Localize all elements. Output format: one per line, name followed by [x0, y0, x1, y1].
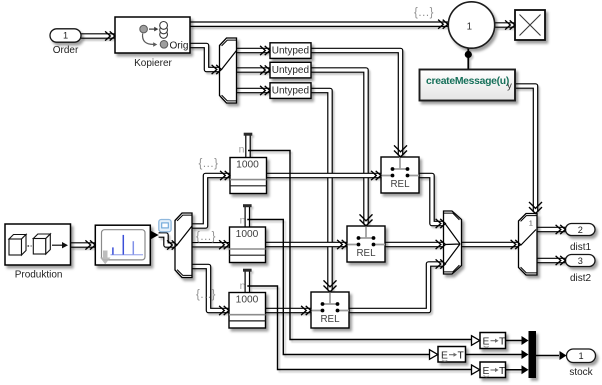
block EtoT1 — [480, 333, 506, 349]
block entity server scope — [95, 225, 150, 265]
svg-text:{...}: {...} — [196, 231, 216, 243]
X terminator cross — [520, 15, 541, 36]
antenna queue1 n port — [244, 134, 253, 157]
queue3 slots — [229, 314, 266, 316]
svg-text:Order: Order — [53, 45, 79, 56]
chevrons into dist1 — [556, 225, 566, 234]
svg-text:Kopierer: Kopierer — [134, 58, 172, 69]
terminator X block — [515, 10, 545, 40]
demux1 inner bevel accents — [222, 40, 237, 101]
mux2 inner bevel accents — [177, 215, 192, 275]
signal queue3 n to EtoT3 — [247, 286, 471, 370]
block REL1 — [381, 157, 419, 193]
wire U2 out down to REL2 top — [311, 70, 367, 225]
wire Produktion to server — [71, 242, 96, 248]
block icons and inner details — [9, 15, 541, 321]
svg-text:{...}: {...} — [414, 7, 434, 19]
chevrons into sum circle — [438, 20, 448, 29]
svg-text:createMessage(u): createMessage(u) — [426, 76, 509, 87]
input switch1 — [444, 211, 462, 274]
open triangle into EtoT2 — [430, 350, 438, 360]
demux1 diagonal — [222, 51, 237, 70]
queue1 block 1000 — [230, 158, 267, 194]
antenna queue3 n port — [243, 270, 252, 292]
svg-text:1: 1 — [529, 219, 533, 228]
REL2 icon — [347, 226, 385, 246]
svg-text:2: 2 — [578, 225, 583, 235]
svg-text:1: 1 — [467, 22, 472, 33]
wire mux2 out2 to queue2 — [192, 242, 229, 248]
chevrons into switch1 in2 — [436, 240, 446, 249]
outport dist2 — [566, 255, 596, 267]
block REL2 — [347, 226, 385, 262]
Kopierer icon — [140, 22, 168, 49]
signal EtoT1 to mux bar — [506, 340, 523, 342]
queue2 block 1000 — [230, 227, 266, 263]
wire REL3 to switch1 in3 — [349, 264, 444, 311]
chevrons into queue2 — [219, 240, 229, 249]
svg-text:REL: REL — [320, 314, 340, 325]
switch1 diagonals — [445, 224, 460, 265]
queue2 slots — [229, 248, 266, 250]
signal circle to createMessage — [467, 48, 469, 69]
switch3 inner bevel accents — [521, 216, 537, 273]
svg-text:dist2: dist2 — [570, 273, 592, 284]
server output message port — [151, 231, 159, 240]
svg-text:T: T — [499, 366, 506, 377]
chevrons into REL3 — [301, 306, 311, 315]
wire Order to Kopierer — [81, 33, 115, 39]
svg-text:n: n — [240, 215, 246, 227]
chevrons into mux2 — [167, 240, 177, 249]
wire demux1 out3 to Untyped3 — [237, 88, 271, 94]
REL3 icon — [311, 292, 349, 312]
chevrons into X block — [505, 20, 515, 29]
text EtoT3 — [483, 366, 507, 377]
svg-text:Untyped: Untyped — [272, 46, 309, 57]
signal queue2 n to EtoT2 — [247, 220, 429, 355]
signal EtoT3 to mux bar — [506, 369, 523, 371]
chevrons into REL2 — [337, 240, 347, 249]
server icon — [100, 230, 145, 265]
svg-text:stock: stock — [569, 367, 593, 378]
wire Kopierer out1 to sum circle — [190, 21, 448, 27]
block Untyped1 — [270, 43, 311, 59]
wire demux1 out1 to Untyped1 — [237, 48, 271, 54]
svg-text:1000: 1000 — [236, 229, 259, 240]
switch1 inner bevel accents — [444, 213, 460, 272]
chevrons into Untyped3 — [260, 86, 270, 95]
mux bar block — [529, 331, 537, 378]
signal queue1 n to EtoT1 — [248, 151, 472, 340]
Produktion icon dots and arrow — [28, 245, 32, 247]
svg-text:Untyped: Untyped — [272, 65, 309, 76]
svg-text:Orig: Orig — [170, 40, 189, 51]
text EtoT2 — [441, 351, 465, 362]
block Untyped2 — [270, 62, 311, 78]
svg-text:1: 1 — [63, 30, 68, 40]
solid arrow bar to stock — [560, 351, 567, 360]
chevrons into Kopierer — [105, 31, 115, 40]
svg-text:{...}: {...} — [196, 289, 216, 301]
signal EtoT2 to mux bar — [466, 354, 523, 356]
queue3 block 1000 — [229, 293, 266, 329]
svg-text:3: 3 — [578, 256, 583, 266]
wire switch3 out2 to dist2 — [537, 258, 566, 264]
block Kopierer — [115, 17, 190, 53]
block Produktion entity generator — [5, 224, 71, 265]
svg-text:1000: 1000 — [236, 160, 259, 171]
svg-text:REL: REL — [356, 248, 376, 259]
REL1 icon — [381, 157, 419, 177]
down chevrons into REL1 top — [394, 145, 407, 157]
queue1 slots — [230, 179, 267, 181]
wire switch3 out1 to dist1 — [537, 227, 566, 233]
down chevrons into switch3 top — [529, 202, 542, 214]
down chevrons into REL3 top — [324, 280, 337, 292]
chevrons into queue1 — [220, 171, 230, 180]
solid arrow EtoT2 to bar — [522, 350, 529, 359]
signal mux bar to stock port — [536, 355, 559, 357]
chevrons into switch3 — [511, 240, 521, 249]
arrowheads layer — [85, 20, 565, 316]
wire createMessage y to switch3 top — [515, 86, 536, 212]
wire queue2 to REL2 — [266, 242, 348, 248]
wire mux2 out3 to queue3 — [192, 267, 229, 311]
outport dist1 — [566, 224, 596, 236]
svg-text:dist1: dist1 — [570, 242, 592, 253]
wire U1 out down to REL1 top — [311, 51, 401, 156]
svg-text:{...}: {...} — [198, 158, 218, 170]
open triangle into EtoT3 — [472, 365, 480, 375]
wire U3 out down to REL3 top — [311, 91, 331, 291]
svg-text:n: n — [240, 280, 246, 292]
outport stock — [567, 349, 596, 363]
text EtoT1 — [483, 337, 507, 348]
output switch mux2 — [175, 213, 192, 278]
svg-text:Untyped: Untyped — [272, 86, 309, 97]
wire queue1 to REL1 — [267, 173, 382, 179]
svg-text:T: T — [499, 337, 506, 348]
chevrons into Untyped2 — [260, 65, 270, 74]
wire Kopierer out2 to demux1 — [190, 46, 220, 70]
svg-text:REL: REL — [390, 179, 410, 190]
block createMessage — [420, 70, 516, 101]
block REL3 — [311, 292, 349, 328]
down chevrons into REL2 top — [360, 214, 373, 226]
Produktion icon cubes — [9, 234, 50, 255]
chevrons into switch1 in3 — [436, 259, 446, 268]
svg-text:y: y — [507, 81, 512, 92]
svg-text:1: 1 — [578, 351, 583, 361]
wire switch1 to switch3 — [462, 242, 519, 248]
chevrons into queue3 — [219, 306, 229, 315]
chevrons into dist2 — [556, 256, 566, 265]
svg-text:n: n — [239, 144, 245, 156]
block Untyped3 — [270, 83, 311, 99]
svg-text:Produktion: Produktion — [15, 269, 63, 280]
junction dot — [465, 51, 472, 58]
wires layer — [71, 24, 566, 370]
block EtoT3 — [480, 362, 506, 378]
output switch demux1 — [220, 38, 237, 103]
wire queue3 to REL3 — [266, 308, 312, 314]
solid arrow EtoT1 to bar — [522, 336, 529, 345]
chevrons into Untyped1 — [260, 46, 270, 55]
sum circle block — [448, 2, 494, 48]
mux2 diagonal — [177, 226, 192, 245]
wire REL2 to switch1 in2 — [385, 242, 444, 248]
antenna queue2 n port — [243, 206, 252, 227]
svg-text:1000: 1000 — [236, 295, 259, 306]
wire server to mux2 — [159, 235, 175, 245]
chevrons into demux1 — [212, 65, 222, 74]
chevrons into server — [85, 240, 95, 249]
open triangle into EtoT1 — [472, 336, 480, 346]
inport Order — [50, 29, 81, 42]
solid arrow EtoT3 to bar — [522, 365, 529, 374]
output switch3 — [519, 214, 538, 276]
switch3 diagonal — [521, 230, 537, 246]
block EtoT2 — [438, 347, 466, 363]
wire mux2 out1 to queue1 — [192, 176, 230, 227]
blue badge — [159, 220, 171, 232]
wire demux1 out2 to Untyped2 — [237, 67, 271, 73]
wire REL1 to switch1 in1 — [419, 176, 444, 224]
wire sum circle to X terminator — [495, 22, 515, 28]
svg-text:T: T — [458, 351, 465, 362]
chevrons into REL1 — [371, 171, 381, 180]
chevrons into switch1 in1 — [436, 219, 446, 228]
